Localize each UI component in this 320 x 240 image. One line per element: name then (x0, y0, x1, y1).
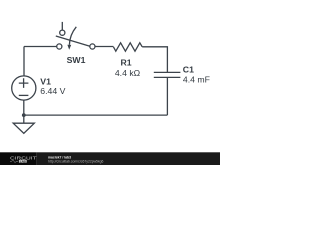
svg-text:R1: R1 (120, 58, 131, 68)
SW1 right terminal circle (90, 44, 95, 49)
svg-text:C1: C1 (183, 64, 194, 74)
resistor R1 zigzag (113, 43, 142, 51)
svg-text:4.4 mF: 4.4 mF (183, 74, 210, 84)
junction node dot (22, 113, 26, 117)
wire: V1 bottom to ground (23, 100, 25, 123)
watermark bar: text box (37, 152, 220, 165)
switch SW1 (56, 22, 95, 50)
voltage source V1 circle (12, 76, 36, 100)
SW1 top terminal circle (60, 30, 65, 35)
capacitor C1 bottom plate (154, 76, 181, 78)
svg-text:V1: V1 (40, 76, 51, 86)
SW1 left terminal circle (57, 44, 62, 49)
wire: bottom rail (24, 114, 168, 116)
logo LAB box (19, 160, 27, 163)
svg-text:http://circuitlab.com/c/c67y22: http://circuitlab.com/c/c67y22pw5kg6 (48, 160, 104, 164)
svg-text:LAB: LAB (20, 159, 26, 163)
svg-text:4.4 kΩ: 4.4 kΩ (115, 68, 141, 78)
SW1 actuation arrow (curved, arrowhead down) (69, 27, 76, 45)
capacitor C1 top plate (154, 71, 181, 73)
wire: from SW1 right terminal to resistor (95, 46, 113, 48)
wire: resistor to top-right corner and down to C1 top plate (142, 47, 167, 72)
svg-text:6.44 V: 6.44 V (40, 86, 65, 96)
wire: left vertical rail down to V1 top (23, 47, 25, 77)
V1 plus sign (19, 78, 29, 88)
wire: C1 bottom plate down to bottom rail (166, 77, 168, 115)
svg-text:SW1: SW1 (67, 55, 86, 65)
wire: top-left horizontal from left rail to switch left terminal (24, 46, 57, 48)
wire: top stub of SW1 (61, 22, 63, 30)
watermark bar: logo box (0, 152, 37, 165)
ground symbol triangle (13, 123, 34, 133)
V1 minus sign (19, 94, 29, 96)
SW1 lever arm (56, 36, 90, 46)
logo waveform squiggle (10, 160, 18, 163)
